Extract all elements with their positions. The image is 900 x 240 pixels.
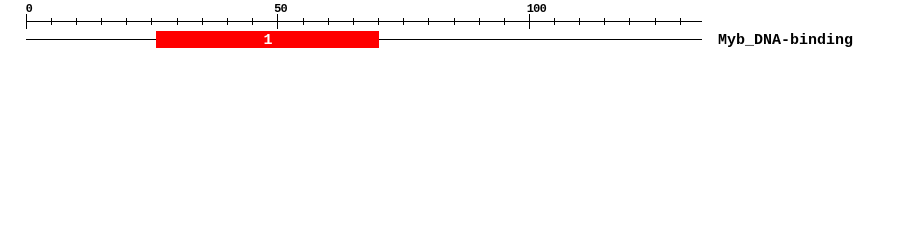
minor ticks xyxy=(51,18,681,25)
major tick 100 xyxy=(529,14,530,29)
domain box Myb_DNA-binding (1) xyxy=(156,31,379,48)
ruler axis line xyxy=(26,21,702,22)
background xyxy=(0,0,900,58)
major tick 0 xyxy=(26,14,27,29)
svg-text:Myb_DNA-binding: Myb_DNA-binding xyxy=(718,32,853,49)
svg-text:0: 0 xyxy=(26,2,33,16)
major tick 50 xyxy=(277,14,278,29)
svg-text:1: 1 xyxy=(263,32,272,49)
svg-text:50: 50 xyxy=(274,2,287,16)
sequence line xyxy=(26,39,702,40)
svg-text:100: 100 xyxy=(527,2,547,16)
